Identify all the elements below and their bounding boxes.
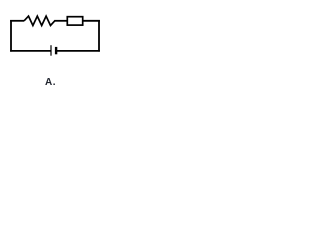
battery B1 long thin plate (50, 45, 52, 56)
wire right vertical (98, 20, 100, 51)
resistor R2 (box symbol) (67, 17, 82, 25)
svg-text:A.: A. (45, 77, 56, 88)
wire top-left segment (10, 20, 24, 22)
wire left vertical (10, 20, 12, 51)
resistor R1 (zigzag) (24, 16, 55, 25)
battery B1 short thick plate (55, 47, 57, 54)
wire between resistor and box (54, 20, 67, 22)
wire bottom-right segment (57, 50, 100, 52)
wire bottom-left segment (10, 50, 51, 52)
wire box to top-right corner (83, 20, 100, 22)
